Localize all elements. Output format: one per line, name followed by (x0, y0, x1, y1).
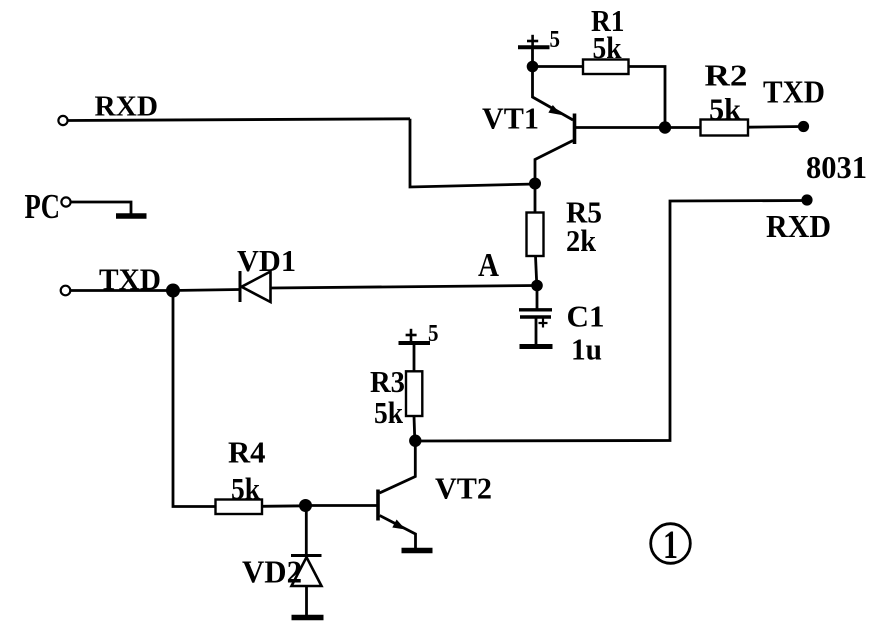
svg-text:5k: 5k (231, 471, 261, 506)
wire base node down to VD2 (305, 506, 308, 557)
wire R3 to collector node (413, 416, 417, 441)
wire VD1 to node A (271, 286, 538, 289)
junction R1/R2 node (659, 121, 671, 133)
label R1 (591, 3, 625, 38)
svg-text:5k: 5k (374, 395, 404, 430)
resistor R3 (406, 371, 422, 416)
label R4 (228, 435, 266, 470)
label TXD (PC side) (99, 262, 161, 297)
resistor R4 (216, 500, 263, 515)
wire TXD to junction (70, 289, 173, 292)
label R5 (566, 195, 602, 230)
wire collector node to R5 (534, 184, 537, 213)
wire node to R1 (533, 65, 584, 68)
svg-text:C1: C1 (567, 299, 605, 334)
svg-text:8031: 8031 (806, 149, 867, 185)
wire TXD junction down to R4 (173, 291, 216, 507)
label R3 value 5k (374, 395, 404, 430)
wire R2 to TXD terminal (748, 125, 803, 128)
label R3 (370, 364, 405, 399)
svg-text:R3: R3 (370, 364, 405, 399)
diode VD1 (240, 271, 271, 302)
terminal TXD (8031 side) (798, 121, 809, 132)
svg-text:VD2: VD2 (242, 554, 302, 590)
label TXD (8031 side) (763, 74, 825, 110)
label A (478, 247, 499, 284)
junction VT2 collector node (409, 435, 421, 447)
label C1 value 1u (571, 332, 602, 367)
svg-text:VT2: VT2 (435, 471, 492, 506)
svg-text:RXD: RXD (95, 92, 159, 123)
resistor R2 (701, 120, 749, 136)
label R2 (705, 58, 748, 93)
wire RXD 8031 to VT2 collector node (415, 201, 807, 442)
svg-text:TXD: TXD (763, 74, 825, 110)
resistor R1 (583, 60, 629, 75)
power +5 (R3) (399, 321, 439, 347)
wire VT1 base to node (576, 126, 665, 129)
ground (VD2) (292, 615, 324, 621)
label VD1 (237, 243, 296, 278)
wire PC to ground (71, 202, 131, 214)
svg-text:RXD: RXD (766, 208, 831, 244)
transistor VT1 (533, 67, 575, 184)
wire node to R2 (665, 126, 701, 129)
ground (C1) (520, 344, 553, 349)
power +5 (VT1) (518, 27, 560, 53)
svg-text:5k: 5k (593, 30, 623, 65)
label PC (25, 187, 61, 226)
wire junction to VD1 (173, 290, 240, 291)
svg-text:1u: 1u (571, 332, 602, 367)
label VT2 (435, 471, 492, 506)
svg-text:VT1: VT1 (482, 101, 539, 136)
svg-text:5: 5 (550, 27, 561, 53)
wire RXD vertical drop (410, 119, 535, 187)
junction base node (299, 499, 312, 512)
label R4 value 5k (231, 471, 261, 506)
svg-text:2k: 2k (566, 223, 597, 258)
svg-text:5: 5 (428, 321, 439, 347)
node A junction (531, 280, 543, 292)
svg-text:R2: R2 (705, 58, 748, 93)
label R5 value 2k (566, 223, 597, 258)
wire base node to VT2 base (306, 504, 377, 507)
wire R1 to base node (629, 67, 666, 128)
wire +5 to collector node (531, 48, 534, 67)
label RXD (PC side) (95, 92, 159, 123)
ground (VT2) (402, 548, 433, 554)
terminal TXD (PC side) (61, 286, 71, 296)
diode VD2 (291, 556, 322, 616)
capacitor C1 (519, 310, 552, 345)
terminal RXD (8031 side) (801, 194, 812, 205)
terminal RXD (PC side) (58, 116, 67, 125)
label R1 value 5k (593, 30, 623, 65)
resistor R5 (527, 213, 544, 257)
figure number circled 1 (651, 522, 691, 567)
wire +5 to R3 (413, 344, 416, 372)
label 8031 (806, 149, 867, 185)
ground (PC) (116, 213, 147, 219)
wire node A to C1 (536, 286, 539, 309)
svg-text:1: 1 (663, 522, 678, 567)
svg-text:5k: 5k (709, 92, 742, 127)
junction TXD node (166, 284, 180, 298)
wire RXD horizontal (68, 119, 410, 121)
junction VT1 collector node (529, 178, 541, 190)
svg-text:R4: R4 (228, 435, 266, 470)
label VD2 (242, 554, 302, 590)
transistor VT2 (378, 441, 416, 548)
label VT1 (482, 101, 539, 136)
svg-text:A: A (478, 247, 499, 284)
junction +5 node (527, 61, 539, 73)
label RXD (8031 side) (766, 208, 831, 244)
svg-text:PC: PC (25, 187, 61, 226)
wire R5 to node A (536, 256, 537, 286)
label R2 value 5k (709, 92, 742, 127)
wire R4 to base node (262, 504, 306, 507)
svg-text:VD1: VD1 (237, 243, 296, 278)
terminal PC (61, 197, 70, 206)
label C1 (567, 299, 605, 334)
